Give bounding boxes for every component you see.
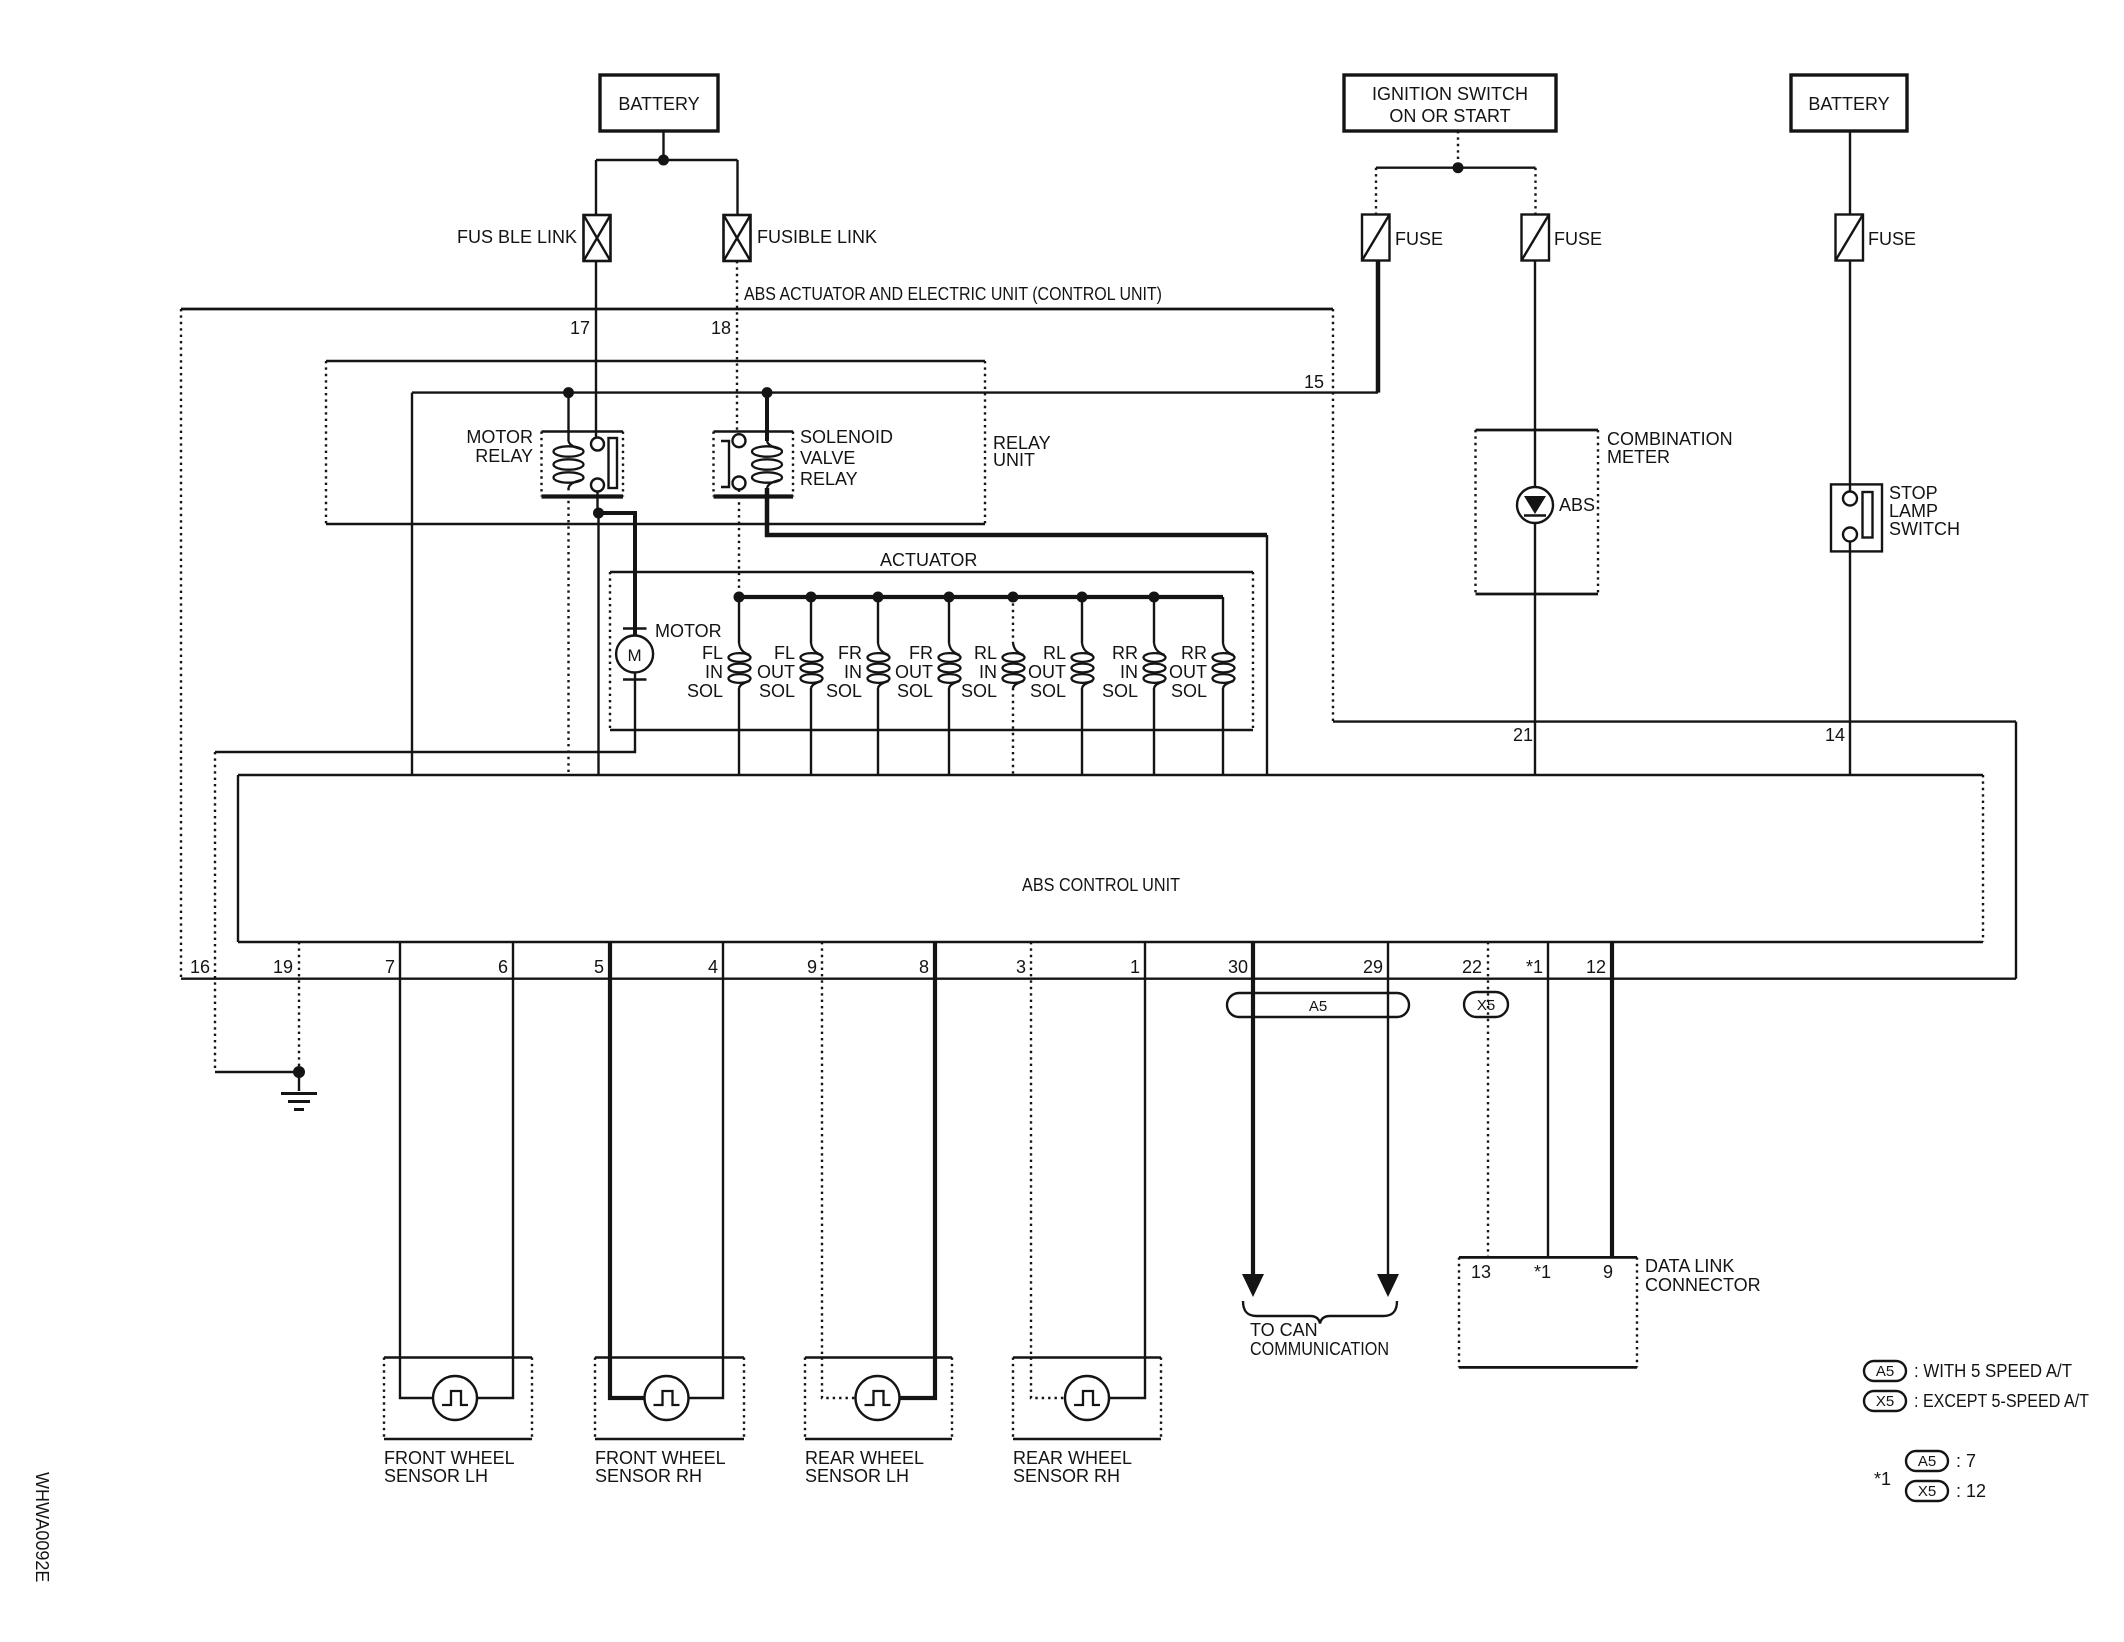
combination meter box	[1476, 429, 1599, 432]
solenoid FL OUT SOL	[757, 597, 823, 775]
fuse F3	[1836, 215, 1864, 261]
solenoid relay K2 coil	[765, 393, 769, 441]
svg-text:IN: IN	[1120, 662, 1138, 682]
motor relay K1 contact top	[591, 438, 604, 451]
wire motor ground run	[215, 673, 635, 753]
ABS actuator assembly box top edge	[181, 308, 1333, 311]
ABS actuator assembly box left edge	[180, 309, 182, 979]
svg-text:RELAY: RELAY	[800, 469, 858, 489]
motor M1	[616, 636, 653, 673]
wire pin15 horizontal run	[412, 391, 1378, 393]
battery B2 box	[1791, 75, 1907, 131]
svg-text:RR: RR	[1181, 643, 1207, 663]
pin 1 wire	[1144, 942, 1146, 1358]
svg-text:ABS: ABS	[1559, 495, 1595, 515]
front wheel sensor LH	[384, 1358, 532, 1487]
node bus FL OUT	[806, 592, 817, 603]
wire stop lamp switch to control unit, pin 14	[1849, 542, 1851, 776]
svg-text:1: 1	[1130, 957, 1140, 977]
svg-text:SOL: SOL	[759, 681, 795, 701]
legend capsule X5	[1864, 1391, 1906, 1411]
svg-text:RR: RR	[1112, 643, 1138, 663]
svg-text:FUS BLE LINK: FUS BLE LINK	[457, 227, 577, 247]
svg-text:SOL: SOL	[826, 681, 862, 701]
svg-text:6: 6	[498, 957, 508, 977]
svg-text:SOL: SOL	[897, 681, 933, 701]
svg-text:A5: A5	[1309, 998, 1327, 1015]
svg-text:OUT: OUT	[895, 662, 933, 682]
node battery split	[658, 155, 669, 166]
solenoid relay K2 contact top	[733, 434, 746, 447]
wire FL2 down to solenoid relay contact, pin 18	[736, 261, 738, 434]
pin 4 wire	[722, 942, 724, 1358]
svg-text:FRONT WHEEL: FRONT WHEEL	[384, 1448, 515, 1468]
svg-text:BATTERY: BATTERY	[618, 94, 699, 114]
svg-text:OUT: OUT	[1028, 662, 1066, 682]
wire drop to fuse F2	[1534, 168, 1536, 215]
svg-text:: EXCEPT 5-SPEED A/T: : EXCEPT 5-SPEED A/T	[1914, 1391, 2089, 1411]
wire motor relay coil to control unit	[567, 488, 569, 775]
node bus RR IN	[1149, 592, 1160, 603]
svg-text:WHWA0092E: WHWA0092E	[32, 1472, 52, 1582]
wire drop to fuse F1	[1375, 168, 1377, 215]
node motor relay coil tap	[563, 387, 574, 398]
node ground junction	[215, 1071, 299, 1073]
svg-text:29: 29	[1363, 957, 1383, 977]
svg-text:OUT: OUT	[757, 662, 795, 682]
wire ignition split bus	[1376, 166, 1536, 168]
wire to fusible link 2	[736, 160, 738, 215]
svg-text:TO CAN: TO CAN	[1250, 1320, 1318, 1340]
svg-text:8: 8	[919, 957, 929, 977]
wire battery B2 to fuse F3	[1849, 131, 1851, 215]
motor relay K1 coil	[567, 393, 569, 441]
wire contact bottom to node	[596, 492, 598, 514]
svg-text:STOP: STOP	[1889, 483, 1938, 503]
svg-text:FUSE: FUSE	[1395, 229, 1443, 249]
connector option capsule X5	[1464, 992, 1508, 1017]
svg-text:16: 16	[190, 957, 210, 977]
wire relay feed drop at x412 to control unit	[411, 393, 413, 775]
wire FL1 down to motor relay contact, pin 17	[595, 261, 597, 438]
svg-text:SOL: SOL	[687, 681, 723, 701]
svg-text:BATTERY: BATTERY	[1808, 94, 1889, 114]
pin 19 wire to ground	[298, 942, 300, 1072]
ABS actuator assembly box jog edge	[1333, 720, 2016, 722]
svg-text:*1: *1	[1534, 1262, 1551, 1282]
svg-text:FR: FR	[838, 643, 862, 663]
wire ignition to split	[1457, 131, 1459, 168]
ignition switch box	[1344, 75, 1556, 131]
node bus FR IN	[873, 592, 884, 603]
node bus FL IN	[734, 592, 745, 603]
fusible link FL1	[584, 215, 611, 261]
solenoid FR IN SOL	[826, 597, 890, 775]
wire node to control unit	[597, 513, 599, 775]
svg-text:9: 9	[1603, 1262, 1613, 1282]
fuse F1	[1362, 215, 1390, 261]
wire K2 coil to control unit via jog	[767, 488, 1267, 535]
ABS actuator assembly box right edge upper	[1332, 309, 1334, 722]
svg-text:12: 12	[1586, 957, 1606, 977]
wire pin15 riser to fuse F1	[1376, 260, 1381, 392]
svg-text:FUSIBLE LINK: FUSIBLE LINK	[757, 227, 877, 247]
pin 7 wire	[399, 942, 401, 1358]
pin 30 wire CAN-L arrow	[1251, 942, 1255, 1276]
svg-text:21: 21	[1513, 725, 1533, 745]
pin 3 wire	[1030, 942, 1032, 1358]
legend capsule A5 pin7	[1906, 1451, 1948, 1471]
pin 9 wire	[821, 942, 823, 1358]
svg-text:RELAY: RELAY	[475, 446, 533, 466]
svg-text:FR: FR	[909, 643, 933, 663]
svg-text:A5: A5	[1918, 1453, 1936, 1470]
svg-text:5: 5	[594, 957, 604, 977]
pin 12 wire	[1610, 942, 1614, 1257]
solenoid RL IN SOL	[961, 597, 1025, 775]
solenoid relay K2 contact bottom	[733, 477, 746, 490]
node bus RL OUT	[1077, 592, 1088, 603]
svg-text:FRONT WHEEL: FRONT WHEEL	[595, 1448, 726, 1468]
svg-text:FL: FL	[774, 643, 795, 663]
solenoid FL IN SOL	[687, 597, 751, 775]
svg-text:ON OR START: ON OR START	[1389, 106, 1510, 126]
svg-text:SOLENOID: SOLENOID	[800, 427, 893, 447]
wire fuse F3 to stop lamp switch	[1849, 261, 1851, 492]
pin 8 wire	[933, 942, 937, 1358]
node motor feed	[593, 508, 604, 519]
wire to fusible link 1	[595, 160, 597, 215]
connector option capsule A5	[1227, 993, 1409, 1017]
svg-text:REAR WHEEL: REAR WHEEL	[1013, 1448, 1132, 1468]
ABS warning lamp	[1534, 430, 1536, 487]
svg-text:19: 19	[273, 957, 293, 977]
svg-text:LAMP: LAMP	[1889, 501, 1938, 521]
fuse F2	[1522, 215, 1550, 261]
svg-text:MOTOR: MOTOR	[655, 621, 722, 641]
solenoid RL OUT SOL	[1028, 597, 1094, 775]
svg-text:SOL: SOL	[1102, 681, 1138, 701]
svg-text:SENSOR LH: SENSOR LH	[805, 1466, 909, 1486]
brace to CAN communication	[1243, 1301, 1397, 1324]
svg-text:FL: FL	[702, 643, 723, 663]
ABS actuator assembly box right edge lower	[2015, 722, 2017, 979]
svg-text:*1: *1	[1526, 957, 1543, 977]
solenoid RR OUT SOL	[1169, 643, 1235, 775]
svg-text:: 12: : 12	[1956, 1481, 1986, 1501]
svg-text:SOL: SOL	[1171, 681, 1207, 701]
svg-text:SOL: SOL	[1030, 681, 1066, 701]
rear wheel sensor RH	[1013, 1358, 1161, 1487]
solenoid FR OUT SOL	[895, 597, 961, 775]
front wheel sensor RH	[595, 1358, 744, 1487]
svg-text:MOTOR: MOTOR	[466, 427, 533, 447]
svg-text:SWITCH: SWITCH	[1889, 519, 1960, 539]
svg-text:ACTUATOR: ACTUATOR	[880, 550, 977, 570]
svg-text:SOL: SOL	[961, 681, 997, 701]
svg-text:M: M	[628, 646, 642, 665]
svg-text:RL: RL	[974, 643, 997, 663]
pin 22 wire	[1487, 942, 1489, 1257]
wire motor feed run	[599, 513, 636, 636]
solenoid bus	[739, 595, 1223, 599]
svg-text:30: 30	[1228, 957, 1248, 977]
svg-text:DATA LINK: DATA LINK	[1645, 1256, 1734, 1276]
svg-text:*1: *1	[1874, 1469, 1891, 1489]
svg-text:FUSE: FUSE	[1868, 229, 1916, 249]
motor relay K1 box	[542, 430, 624, 432]
svg-text:ABS CONTROL UNIT: ABS CONTROL UNIT	[1022, 875, 1180, 895]
pin 29 wire CAN-H arrow	[1387, 942, 1389, 1276]
svg-text:COMMUNICATION: COMMUNICATION	[1250, 1339, 1389, 1359]
battery B1	[600, 75, 718, 131]
svg-text:9: 9	[807, 957, 817, 977]
svg-text:4: 4	[708, 957, 718, 977]
stop lamp switch S1	[1831, 484, 1882, 551]
svg-text:A5: A5	[1876, 1363, 1894, 1380]
svg-text:SENSOR RH: SENSOR RH	[1013, 1466, 1120, 1486]
node ignition split	[1453, 162, 1464, 173]
svg-text:ABS ACTUATOR AND ELECTRIC UNIT: ABS ACTUATOR AND ELECTRIC UNIT (CONTROL …	[744, 284, 1162, 304]
svg-text:X5: X5	[1477, 997, 1495, 1014]
relay unit box	[326, 360, 985, 362]
svg-text:X5: X5	[1876, 1393, 1894, 1410]
svg-text:IN: IN	[979, 662, 997, 682]
solenoid relay K2 box	[714, 430, 794, 432]
ABS actuator assembly box bottom edge / connector row	[181, 978, 2016, 980]
svg-text:OUT: OUT	[1169, 662, 1207, 682]
legend capsule X5 pin12	[1906, 1481, 1948, 1501]
svg-text:SENSOR LH: SENSOR LH	[384, 1466, 488, 1486]
svg-text:RL: RL	[1043, 643, 1066, 663]
svg-text:X5: X5	[1918, 1483, 1936, 1500]
svg-text:15: 15	[1304, 372, 1324, 392]
pin 6 wire	[512, 942, 514, 1358]
ground G1	[298, 1072, 300, 1091]
pin *1 wire	[1547, 942, 1549, 1257]
motor relay K1 contact bottom	[591, 479, 604, 492]
node bus FR OUT	[944, 592, 955, 603]
ABS control unit box	[238, 774, 1983, 776]
svg-text:: WITH 5 SPEED A/T: : WITH 5 SPEED A/T	[1914, 1361, 2072, 1381]
svg-text:FUSE: FUSE	[1554, 229, 1602, 249]
svg-text:SENSOR RH: SENSOR RH	[595, 1466, 702, 1486]
svg-text:METER: METER	[1607, 447, 1670, 467]
svg-text:CONNECTOR: CONNECTOR	[1645, 1275, 1761, 1295]
node bus RL IN	[1008, 592, 1019, 603]
svg-text:IGNITION SWITCH: IGNITION SWITCH	[1372, 84, 1528, 104]
svg-text:REAR WHEEL: REAR WHEEL	[805, 1448, 924, 1468]
svg-text:IN: IN	[705, 662, 723, 682]
svg-text:VALVE: VALVE	[800, 448, 855, 468]
solenoid RR IN SOL	[1102, 597, 1166, 775]
wire fuse F2 to combination meter	[1534, 261, 1536, 431]
rear wheel sensor LH	[805, 1358, 952, 1487]
wire split bus	[596, 159, 738, 161]
wire K2 contact bottom to solenoid bus	[738, 490, 740, 598]
node solenoid relay coil tap	[762, 387, 773, 398]
data link connector box	[1459, 1256, 1637, 1259]
fusible link FL2	[724, 215, 751, 261]
motor relay K1 armature bar	[609, 438, 618, 488]
wire ABS lamp to control unit, pin 21	[1534, 523, 1536, 775]
solenoid relay K2 armature bar	[721, 441, 729, 487]
svg-text:14: 14	[1825, 725, 1845, 745]
svg-text:: 7: : 7	[1956, 1451, 1976, 1471]
svg-text:13: 13	[1471, 1262, 1491, 1282]
pin 5 wire	[608, 942, 612, 1358]
svg-text:3: 3	[1016, 957, 1026, 977]
legend capsule A5	[1864, 1361, 1906, 1381]
svg-text:18: 18	[711, 318, 731, 338]
svg-text:IN: IN	[844, 662, 862, 682]
wire battery B1 to junction	[662, 131, 664, 160]
svg-text:COMBINATION: COMBINATION	[1607, 429, 1733, 449]
svg-text:17: 17	[570, 318, 590, 338]
svg-text:7: 7	[385, 957, 395, 977]
svg-text:UNIT: UNIT	[993, 450, 1035, 470]
svg-text:22: 22	[1462, 957, 1482, 977]
